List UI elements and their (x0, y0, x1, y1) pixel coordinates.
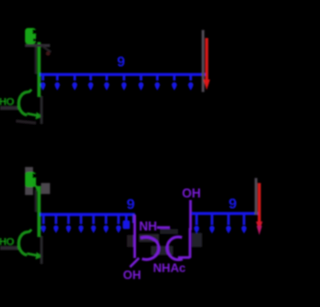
glyceryl ring arc (green) bottom (19, 232, 29, 255)
faint terminal carbon bond right chain (gray) (255, 178, 258, 215)
carbonyl O label (green) bottom unit (25, 167, 50, 195)
O-C bond (purple vertical upper) (189, 200, 192, 230)
r-chain tick 2 (209, 213, 214, 234)
r-chain tick 1 (194, 213, 199, 234)
svg-text:9: 9 (229, 196, 237, 213)
faint gray under HO (0, 106, 20, 110)
chain CH2 tick 5 (104, 74, 109, 91)
chain CH2 tick 6 (121, 74, 126, 91)
right alkyl chain (blue) bottom: backbone (191, 212, 259, 215)
b-chain tick 2 (54, 214, 59, 233)
bond C=O vertical (green) (37, 42, 40, 97)
sugar ring right arc (purple) (167, 237, 182, 260)
b-chain tick 8 (123, 214, 130, 229)
terminal OH bond (red) (205, 38, 208, 82)
svg-text:OH: OH (123, 268, 141, 282)
glyceryl ring arc (green) (19, 92, 29, 115)
b-chain tick 9 (at sugar) (132, 214, 135, 223)
b-chain tick 3 (66, 214, 71, 233)
faint skeleton line left of green bond bottom (gray) (35, 190, 37, 212)
chain CH2 tick 7 (138, 74, 143, 91)
faint blob lower (16, 121, 36, 123)
bond to OH (purple diagonal) (130, 258, 139, 267)
b-chain tick 7 (116, 214, 121, 233)
faint vertical bond right of arc (40, 96, 43, 124)
sugar ring right vertical (purple) (189, 228, 192, 258)
svg-text:OH: OH (182, 187, 201, 201)
faint terminal carbon bond (gray) (202, 30, 205, 92)
arrow tail (green) bottom (27, 254, 37, 256)
svg-text:NH: NH (139, 220, 157, 234)
amide bond dash (purple) (157, 226, 170, 229)
faint skeleton marks near carbonyl (25, 44, 50, 47)
faint skeleton mush around sugar (gray) (127, 229, 202, 255)
terminal OH arrowhead (red) (203, 80, 210, 91)
arc top hook (green) (29, 90, 32, 93)
alkyl chain (blue): backbone (40, 73, 206, 76)
sugar ring bottom bond (purple) (178, 256, 190, 259)
b-chain tick 6 (104, 214, 109, 233)
arc top hook (green) bottom (29, 230, 32, 233)
svg-text:NHAc: NHAc (153, 261, 186, 275)
terminal COOH bond (red) bottom (258, 183, 261, 226)
sugar ring left arc (purple) (141, 237, 159, 259)
faint gray under HO bottom (0, 246, 20, 250)
chain CH2 tick 10 (188, 74, 193, 91)
chain CH2 tick 9 (172, 74, 177, 91)
chain CH2 tick 2 (55, 74, 60, 91)
svg-text:9: 9 (127, 196, 135, 213)
carbonyl O label (green) top (25, 28, 37, 44)
faint vertical bond right of arc bottom (40, 236, 43, 264)
bond C=O vertical (green) bottom (37, 186, 40, 237)
b-chain tick 1 (41, 214, 46, 233)
chain CH2 tick 1 (40, 74, 45, 91)
chain CH2 tick 8 (155, 74, 160, 91)
faint skeleton line left of green bond (gray) (35, 44, 37, 74)
b-chain tick 5 (91, 214, 96, 233)
left alkyl chain (blue) bottom: backbone (40, 213, 135, 216)
svg-text:9: 9 (117, 55, 125, 71)
b-chain tick 4 (79, 214, 84, 233)
sugar C1 bond (purple vertical) (133, 215, 136, 258)
r-chain tick 4 (241, 213, 246, 234)
terminal COOH arrowhead (red/magenta) bottom (256, 222, 263, 232)
arrow tail (green) (27, 114, 37, 116)
r-chain tick 3 (226, 213, 231, 234)
chain CH2 tick 4 (88, 74, 93, 91)
chain CH2 tick 3 (72, 74, 77, 91)
